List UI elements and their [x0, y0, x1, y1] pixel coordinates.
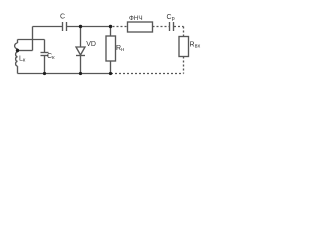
svg-text:Cк: Cк [47, 53, 55, 61]
svg-text:Lк: Lк [19, 56, 26, 64]
svg-text:Rвх: Rвх [190, 42, 201, 50]
svg-text:Rн: Rн [116, 45, 124, 53]
svg-text:Cр: Cр [167, 14, 175, 22]
svg-text:C: C [60, 13, 65, 20]
svg-text:ФНЧ: ФНЧ [129, 15, 143, 22]
svg-text:VD: VD [86, 41, 96, 48]
